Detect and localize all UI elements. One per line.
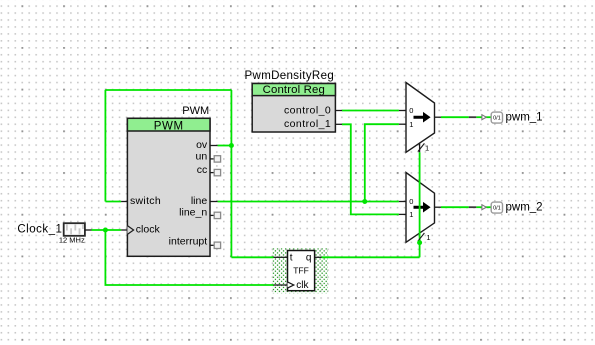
svg-text:Control Reg: Control Reg [263,84,325,96]
svg-text:control_0: control_0 [284,104,331,116]
svg-text:ov: ov [196,139,208,151]
svg-text:interrupt: interrupt [169,236,208,248]
svg-text:clock: clock [136,224,161,236]
svg-text:12 MHz: 12 MHz [59,236,85,245]
svg-text:0/1: 0/1 [493,206,501,212]
svg-text:clk: clk [296,280,309,291]
svg-text:pwm_1: pwm_1 [506,111,543,123]
svg-text:control_1: control_1 [284,118,331,130]
svg-text:0: 0 [409,106,413,115]
svg-text:PWM: PWM [182,105,209,117]
svg-text:line_n: line_n [179,207,207,219]
svg-text:1: 1 [409,120,413,129]
svg-text:Clock_1: Clock_1 [17,224,62,236]
svg-text:TFF: TFF [293,265,309,275]
svg-text:t: t [290,252,293,263]
svg-text:PwmDensityReg: PwmDensityReg [245,70,335,82]
svg-text:0: 0 [409,197,413,206]
svg-text:1: 1 [425,143,429,152]
svg-text:0/1: 0/1 [493,116,501,122]
svg-text:line: line [191,195,208,207]
svg-text:PWM: PWM [154,120,184,132]
svg-text:un: un [196,150,208,162]
svg-text:q: q [306,252,312,263]
svg-text:1: 1 [409,210,413,219]
svg-text:1: 1 [426,233,430,242]
svg-text:switch: switch [130,195,161,207]
svg-text:pwm_2: pwm_2 [506,201,543,213]
svg-text:cc: cc [197,164,208,176]
